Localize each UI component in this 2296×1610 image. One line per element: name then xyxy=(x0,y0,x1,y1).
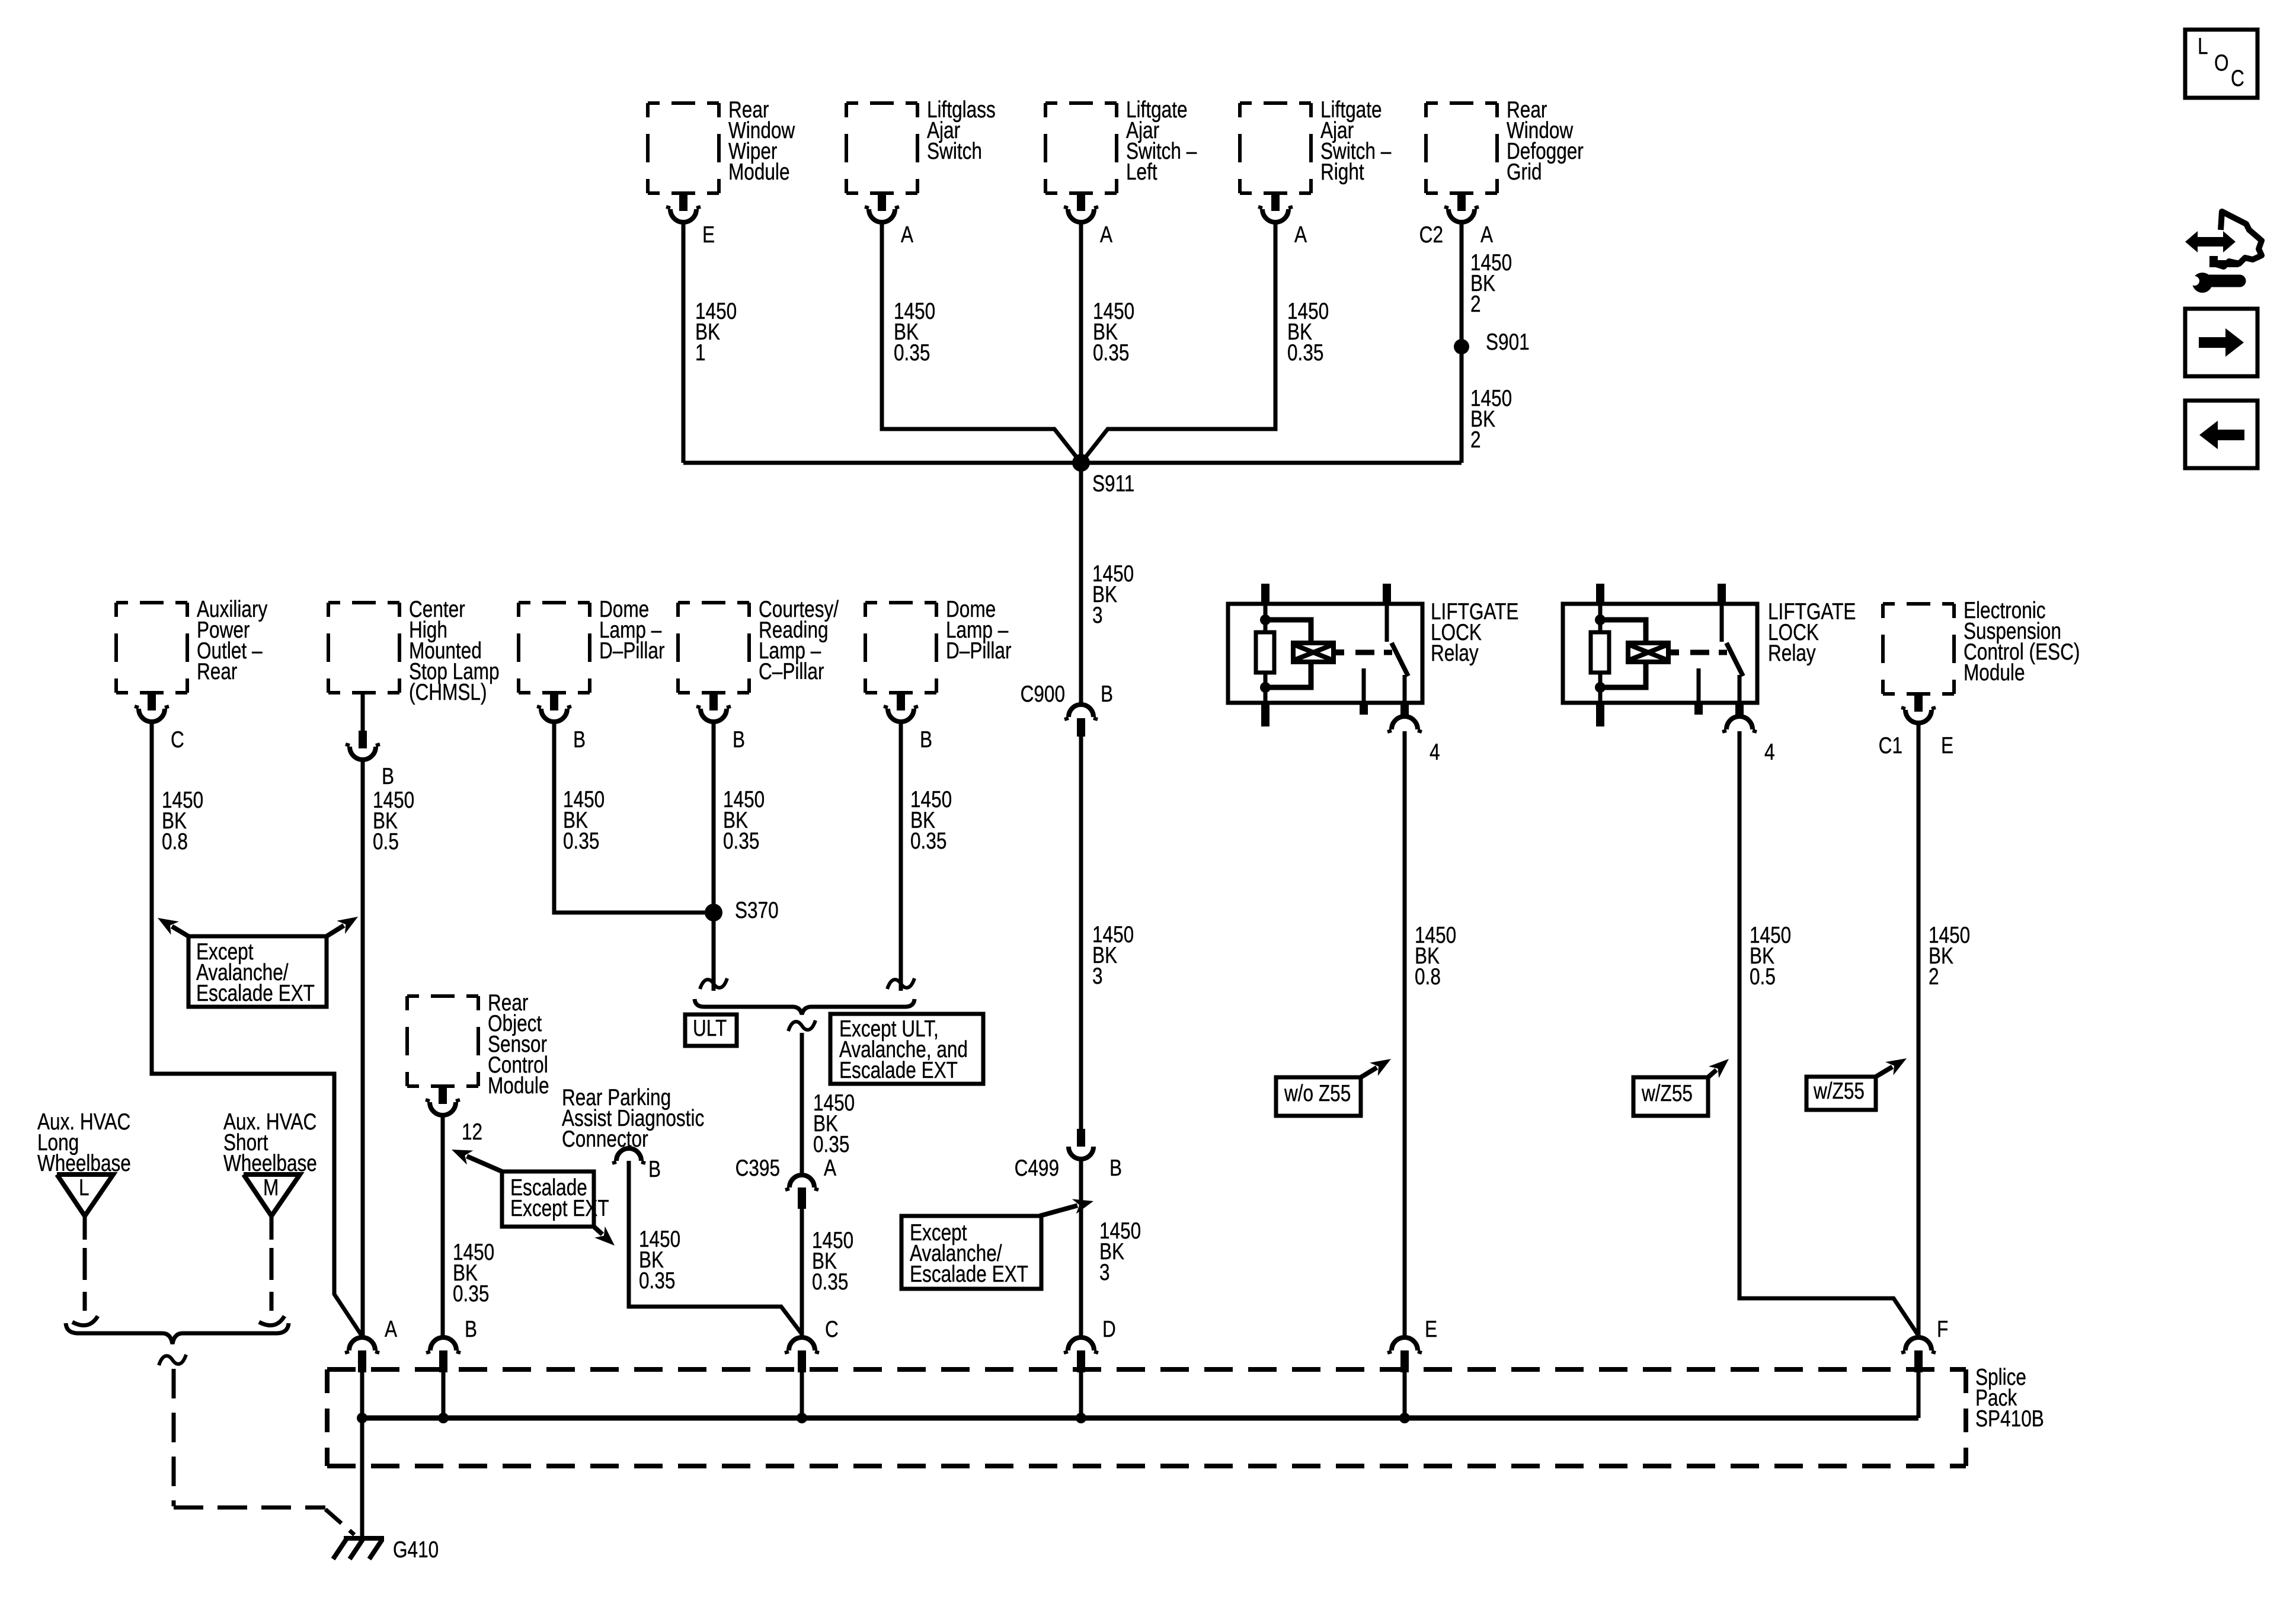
wire: Liftgate Ajar Switch - Right to S911 xyxy=(1081,222,1275,463)
wire: Liftglass Ajar Switch to S911 xyxy=(882,222,1081,463)
svg-text:B: B xyxy=(573,727,586,753)
relay: LIFTGATE LOCK Relay (right) with coil, resistor and switch xyxy=(1563,604,1757,703)
ground wire from node A to G410 xyxy=(360,1418,364,1538)
splice S370 xyxy=(705,904,722,921)
splice pack SP410B dashed box xyxy=(327,1369,1966,1466)
connector C2 pin A of Rear Window Defogger Grid xyxy=(1457,193,1466,211)
svg-text:Escalade EXT: Escalade EXT xyxy=(196,981,315,1006)
connector pin B of Dome Lamp - D-Pillar (right) xyxy=(897,693,905,710)
svg-text:B: B xyxy=(920,727,932,753)
svg-text:ULT: ULT xyxy=(693,1016,727,1041)
legend box LOC xyxy=(2185,30,2257,98)
in-line connector C499 pin B xyxy=(1077,1129,1085,1147)
wire: Rear Window Defogger Grid to S911 (via S901) xyxy=(1460,222,1464,463)
splice pack node A connector xyxy=(349,1337,375,1350)
svg-text:D–Pillar: D–Pillar xyxy=(946,638,1012,664)
svg-text:C: C xyxy=(2231,66,2244,91)
svg-text:Module: Module xyxy=(1964,660,2025,686)
component box: Rear Window Wiper Module xyxy=(648,103,719,193)
component box: Dome Lamp - D-Pillar (left) xyxy=(519,603,590,693)
wire-break squiggle below HVAC brace xyxy=(159,1355,186,1365)
svg-text:O: O xyxy=(2214,50,2229,76)
component box: Liftgate Ajar Switch - Left xyxy=(1045,103,1117,193)
wire: C395 down to splice pack node C xyxy=(800,1209,804,1337)
svg-text:0.35: 0.35 xyxy=(910,828,946,854)
svg-text:Module: Module xyxy=(728,159,790,185)
icon: service diagnostics (double arrow, connector outline, wrench) xyxy=(2185,231,2236,252)
svg-text:S911: S911 xyxy=(1092,471,1134,497)
svg-text:0.35: 0.35 xyxy=(813,1132,849,1157)
splice pack node D connector xyxy=(1068,1337,1094,1350)
wire: brace to C395 xyxy=(800,1033,804,1175)
svg-text:F: F xyxy=(1937,1317,1948,1342)
connector pin E of Rear Window Wiper Module xyxy=(679,193,687,211)
component box: Courtesy/Reading Lamp - C-Pillar xyxy=(678,603,749,693)
svg-text:1: 1 xyxy=(695,340,706,366)
svg-text:C395: C395 xyxy=(736,1156,780,1181)
in-line connector C395 pin A xyxy=(789,1175,814,1188)
wire-break squiggle (dome lamp right wire) xyxy=(887,978,914,989)
wire: Dome Lamp (right) down to brace xyxy=(899,722,903,991)
connector pin A of Liftgate Ajar Switch - Right xyxy=(1271,193,1280,211)
icon: arrow right box xyxy=(2185,309,2257,376)
in-line connector C900 pin B xyxy=(1069,705,1093,717)
dashed wire from triangle M xyxy=(270,1216,274,1240)
svg-text:(CHMSL): (CHMSL) xyxy=(409,680,487,705)
svg-text:2: 2 xyxy=(1929,964,1939,990)
svg-text:0.5: 0.5 xyxy=(1750,964,1776,990)
svg-text:Escalade EXT: Escalade EXT xyxy=(839,1058,958,1083)
svg-text:B: B xyxy=(1101,681,1113,707)
off-page triangle L (Aux HVAC Long Wheelbase) xyxy=(57,1174,113,1216)
svg-text:E: E xyxy=(1941,733,1953,758)
connector pin B of Rear Parking Assist Diagnostic Connector xyxy=(616,1148,641,1161)
svg-text:0.35: 0.35 xyxy=(894,340,930,366)
wire: ESC Module to splice pack node F xyxy=(1917,723,1921,1337)
wire: Auxiliary Power Outlet to splice pack node A xyxy=(152,722,362,1336)
svg-text:E: E xyxy=(1425,1317,1437,1342)
svg-text:Module: Module xyxy=(488,1073,549,1099)
wire-break squiggle below brace xyxy=(788,1020,816,1031)
svg-text:2: 2 xyxy=(1470,427,1481,453)
wire: CHMSL to splice pack node A xyxy=(361,760,365,1337)
svg-text:0.35: 0.35 xyxy=(812,1269,848,1295)
svg-text:0.8: 0.8 xyxy=(1415,964,1441,990)
svg-text:3: 3 xyxy=(1092,964,1103,989)
svg-text:L: L xyxy=(2198,34,2208,59)
svg-text:Except EXT: Except EXT xyxy=(510,1196,609,1221)
svg-text:B: B xyxy=(733,727,745,753)
svg-text:C900: C900 xyxy=(1021,681,1065,707)
svg-text:4: 4 xyxy=(1430,740,1440,765)
callout: w/Z55 (right relay) xyxy=(1633,1077,1708,1116)
component box: Liftglass Ajar Switch xyxy=(846,103,917,193)
connector pin B of Courtesy/Reading Lamp xyxy=(709,693,718,710)
wire: right LIFTGATE LOCK Relay to splice pack node F xyxy=(1739,731,1918,1336)
svg-text:A: A xyxy=(901,222,914,248)
svg-text:Rear: Rear xyxy=(197,659,238,684)
svg-text:C–Pillar: C–Pillar xyxy=(759,659,824,684)
wire: Dome Lamp (left) to S370 xyxy=(554,722,714,913)
component box: Electronic Suspension Control (ESC) Module xyxy=(1883,604,1954,694)
component box: Rear Window Defogger Grid xyxy=(1426,103,1497,193)
svg-text:0.8: 0.8 xyxy=(162,829,188,854)
relay: LIFTGATE LOCK Relay (left) with coil, resistor and switch xyxy=(1228,604,1422,703)
svg-text:12: 12 xyxy=(462,1119,482,1145)
svg-text:4: 4 xyxy=(1764,740,1775,765)
callout: Escalade Except EXT xyxy=(502,1172,594,1227)
svg-text:E: E xyxy=(702,222,715,248)
connector pin A of Liftgate Ajar Switch - Left xyxy=(1077,193,1085,211)
dashed wire from HVAC brace to ground wire xyxy=(172,1369,176,1506)
splice pack node C connector xyxy=(789,1337,815,1350)
connector C1 pin E of ESC Module xyxy=(1914,694,1923,712)
wire: Courtesy/Reading Lamp down through S370 to brace xyxy=(712,722,716,991)
wire: Rear Parking Assist Diagnostic Connector to node C wire xyxy=(629,1161,801,1333)
wire: C499 down to splice pack node D xyxy=(1079,1159,1083,1337)
ground symbol G410 xyxy=(344,1536,384,1541)
svg-text:C2: C2 xyxy=(1419,222,1443,248)
svg-text:0.5: 0.5 xyxy=(373,829,399,854)
icon: arrow left box xyxy=(2185,401,2257,468)
svg-text:w/o Z55: w/o Z55 xyxy=(1284,1081,1351,1106)
svg-text:A: A xyxy=(1294,222,1307,248)
wire-break squiggle (courtesy lamp wire) xyxy=(700,978,727,989)
svg-text:2: 2 xyxy=(1470,292,1481,317)
svg-text:C: C xyxy=(825,1317,839,1342)
component box: Dome Lamp - D-Pillar (right) xyxy=(865,603,936,693)
wire: C900 down to C499 xyxy=(1079,737,1083,1129)
svg-text:Escalade EXT: Escalade EXT xyxy=(910,1262,1028,1287)
wire: Rear Object Sensor Control Module to splice pack node B xyxy=(441,1115,445,1337)
gathering brace for lamp wires xyxy=(695,999,914,1014)
svg-text:D: D xyxy=(1102,1317,1116,1342)
wire: S911 down to C900 xyxy=(1079,463,1083,704)
svg-text:w/Z55: w/Z55 xyxy=(1813,1078,1865,1104)
svg-text:M: M xyxy=(263,1175,279,1201)
splice pack node B connector xyxy=(430,1337,456,1350)
svg-text:Switch: Switch xyxy=(927,139,982,164)
connector pin B of CHMSL xyxy=(361,693,365,731)
svg-text:D–Pillar: D–Pillar xyxy=(599,638,665,664)
svg-text:B: B xyxy=(1109,1156,1122,1181)
off-page triangle M (Aux HVAC Short Wheelbase) xyxy=(244,1174,300,1216)
splice pack node E connector xyxy=(1392,1337,1418,1350)
svg-text:0.35: 0.35 xyxy=(563,828,599,854)
option tag ULT xyxy=(685,1014,737,1046)
gathering brace for Aux HVAC wires xyxy=(66,1323,289,1344)
svg-text:Grid: Grid xyxy=(1507,159,1542,185)
svg-text:Right: Right xyxy=(1320,159,1364,185)
svg-text:0.35: 0.35 xyxy=(453,1281,489,1307)
svg-text:G410: G410 xyxy=(393,1537,439,1563)
svg-text:B: B xyxy=(648,1157,661,1182)
component box: Center High Mounted Stop Lamp (CHMSL) xyxy=(328,603,399,693)
splice pack bus wire xyxy=(362,1416,1918,1421)
svg-text:SP410B: SP410B xyxy=(1975,1406,2044,1432)
svg-text:Relay: Relay xyxy=(1768,641,1816,666)
connector pin C of Auxiliary Power Outlet - Rear xyxy=(148,693,156,710)
svg-text:A: A xyxy=(1100,222,1113,248)
connector pin B of Dome Lamp - D-Pillar (left) xyxy=(550,693,558,710)
svg-text:Left: Left xyxy=(1126,159,1157,185)
callout: w/Z55 (ESC wire) xyxy=(1806,1077,1876,1110)
svg-text:0.35: 0.35 xyxy=(1287,340,1323,366)
connector pin 12 of Rear Object Sensor Control Module xyxy=(439,1086,447,1104)
svg-text:A: A xyxy=(385,1317,398,1342)
component box: Liftgate Ajar Switch - Right xyxy=(1240,103,1311,193)
svg-text:L: L xyxy=(79,1175,89,1201)
wire: left LIFTGATE LOCK Relay to splice pack node E xyxy=(1403,731,1407,1337)
connector pin A of Liftglass Ajar Switch xyxy=(878,193,886,211)
svg-text:C: C xyxy=(171,727,184,753)
component box: Rear Object Sensor Control Module xyxy=(407,996,478,1086)
svg-text:w/Z55: w/Z55 xyxy=(1641,1081,1693,1106)
wire: Rear Window Wiper Module pin E down to S911 xyxy=(682,222,686,463)
splice pack node F connector xyxy=(1905,1337,1932,1350)
component box: Auxiliary Power Outlet - Rear xyxy=(116,603,187,693)
svg-text:Relay: Relay xyxy=(1431,641,1479,666)
svg-text:C499: C499 xyxy=(1015,1156,1059,1181)
callout: Except ULT, Avalanche, and Escalade EXT xyxy=(830,1014,983,1084)
dashed wire from triangle L xyxy=(83,1216,87,1240)
svg-text:0.35: 0.35 xyxy=(723,828,759,854)
svg-text:A: A xyxy=(1480,222,1494,248)
svg-text:S370: S370 xyxy=(735,898,779,923)
splice S901 xyxy=(1454,339,1469,354)
callout: Except Avalanche/Escalade EXT (double arrows) xyxy=(188,936,327,1007)
svg-text:3: 3 xyxy=(1099,1260,1110,1285)
wire: Liftgate Ajar Switch - Left to S911 xyxy=(1079,222,1083,463)
svg-text:0.35: 0.35 xyxy=(1093,340,1129,366)
svg-text:3: 3 xyxy=(1092,603,1103,628)
callout: w/o Z55 xyxy=(1276,1077,1361,1116)
splice S911 junction xyxy=(683,461,1462,465)
svg-text:A: A xyxy=(824,1156,837,1181)
svg-text:S901: S901 xyxy=(1486,329,1530,355)
svg-text:C1: C1 xyxy=(1879,733,1902,758)
svg-text:B: B xyxy=(382,764,394,789)
svg-text:B: B xyxy=(465,1317,477,1342)
svg-text:0.35: 0.35 xyxy=(639,1268,675,1294)
callout: Except Avalanche/Escalade EXT (C499 wire) xyxy=(901,1216,1041,1289)
